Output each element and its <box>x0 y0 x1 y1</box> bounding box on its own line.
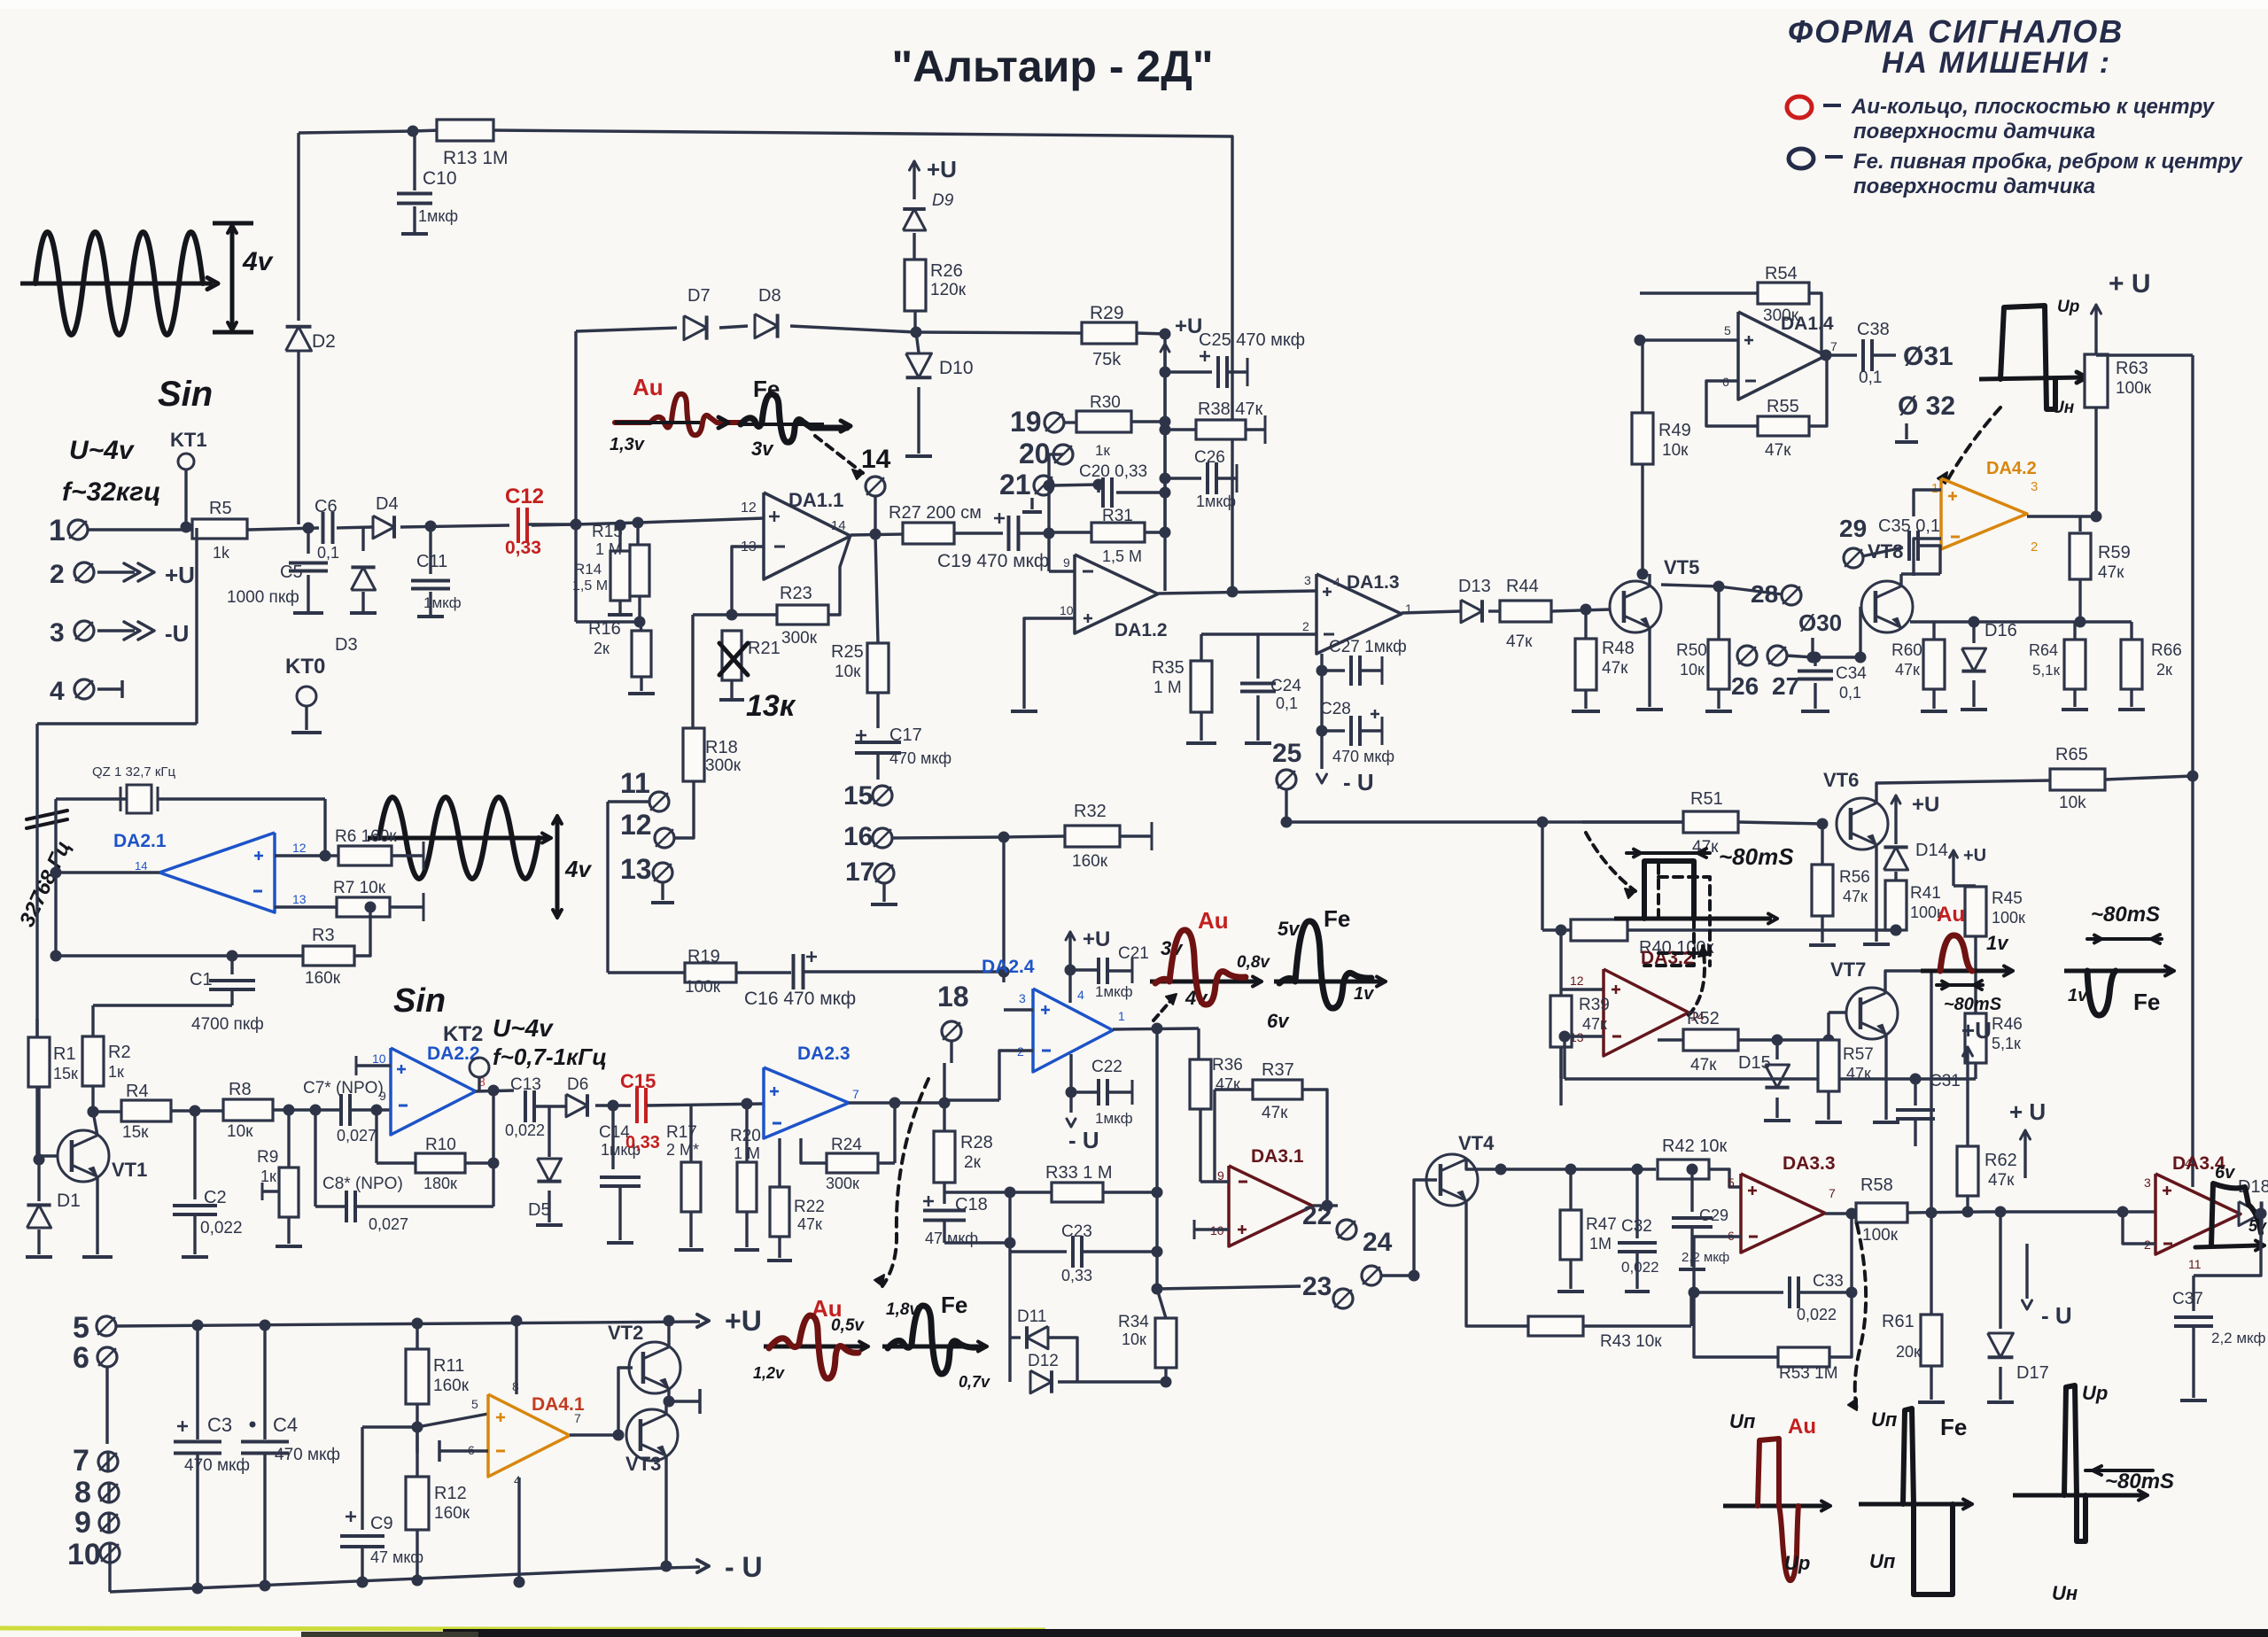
wire C23 right rail <box>1152 1187 1163 1199</box>
junction R9 <box>283 1105 295 1116</box>
svg-text:C27 1мкф: C27 1мкф <box>1329 638 1407 656</box>
dashed curve R51 <box>1586 833 1635 891</box>
junction col 1315 <box>1160 329 1171 340</box>
svg-text:C19 470 мкф: C19 470 мкф <box>937 551 1049 571</box>
svg-text:2к: 2к <box>2156 661 2172 679</box>
svg-text:R44: R44 <box>1506 577 1539 596</box>
svg-text:300к: 300к <box>705 756 742 775</box>
output waveform <box>2195 1245 2257 1247</box>
wire DA4.1 pin8 <box>515 1321 517 1394</box>
svg-text:3: 3 <box>2031 479 2038 494</box>
svg-text:C32: C32 <box>1621 1217 1652 1236</box>
svg-text:2: 2 <box>1302 619 1309 633</box>
sine wave 2 <box>379 797 539 879</box>
svg-text:C35 0,1: C35 0,1 <box>1878 516 1940 536</box>
svg-text:19: 19 <box>1010 406 1042 438</box>
diode D10 <box>916 332 919 353</box>
wire 25 rail <box>1286 820 1683 823</box>
svg-text:DA1.1: DA1.1 <box>788 489 843 511</box>
wire DA1.1 out <box>850 534 904 535</box>
resistor R37 <box>1213 1090 1216 1182</box>
svg-text:3v: 3v <box>751 438 774 460</box>
pulse third <box>2013 1493 2144 1498</box>
svg-text:D7: D7 <box>687 286 711 306</box>
svg-text:5,1к: 5,1к <box>1992 1035 2021 1052</box>
svg-text:1k: 1k <box>213 544 230 562</box>
op-amp DA3.3 <box>1741 1174 1825 1253</box>
capacitor C16 <box>792 954 796 989</box>
wire DA4.1 out <box>570 1433 618 1436</box>
svg-text:1 М: 1 М <box>595 540 622 558</box>
resistor R39 <box>1559 989 1562 996</box>
resistor R27 <box>903 523 954 544</box>
svg-text:160к: 160к <box>1072 852 1108 871</box>
svg-text:Sin: Sin <box>393 982 446 1020</box>
svg-text:R47: R47 <box>1586 1215 1617 1234</box>
svg-text:4: 4 <box>2185 1156 2192 1170</box>
svg-text:C26: C26 <box>1194 448 1225 467</box>
svg-text:10к: 10к <box>835 663 861 681</box>
junction D15 <box>1772 1035 1783 1046</box>
junction C19 out <box>1044 528 1055 539</box>
svg-text:47к: 47к <box>1846 1065 1871 1082</box>
svg-text:VT3: VT3 <box>625 1453 661 1475</box>
svg-text:24: 24 <box>1363 1228 1393 1257</box>
capacitor C11 <box>429 526 431 574</box>
resistor R6 <box>338 846 392 865</box>
wire DA1.4 pin6 <box>1706 381 1759 426</box>
svg-text:- U: - U <box>725 1551 763 1583</box>
svg-text:0,022: 0,022 <box>200 1219 243 1237</box>
svg-text:Uп: Uп <box>1871 1408 1898 1431</box>
resistor R59 <box>2078 516 2081 531</box>
svg-text:ФОРМА СИГНАЛОВ: ФОРМА СИГНАЛОВ <box>1788 13 2124 50</box>
svg-text:0,33: 0,33 <box>625 1133 660 1152</box>
wire R40 drop <box>1537 817 1549 828</box>
svg-text:R30: R30 <box>1090 393 1121 412</box>
wire 23 row <box>1157 1286 1301 1289</box>
svg-text:Au: Au <box>633 374 664 400</box>
wire VT6 emit <box>1875 844 1877 942</box>
svg-text:0,1: 0,1 <box>1859 369 1882 387</box>
svg-text:18: 18 <box>937 981 969 1012</box>
svg-text:180к: 180к <box>423 1175 457 1192</box>
svg-text:R42 10к: R42 10к <box>1662 1137 1727 1156</box>
resistor R56 <box>1821 824 1823 865</box>
svg-text:21: 21 <box>999 469 1031 500</box>
svg-text:D14: D14 <box>1915 841 1948 860</box>
svg-text:C25 470 мкф: C25 470 мкф <box>1199 330 1305 350</box>
svg-text:1мкф: 1мкф <box>423 594 462 611</box>
svg-text:D8: D8 <box>758 286 781 306</box>
wire R46 to pin13 <box>1563 1036 1565 1079</box>
svg-text:DA2.3: DA2.3 <box>797 1043 850 1064</box>
svg-text:10к: 10к <box>1680 661 1705 679</box>
svg-text:R58: R58 <box>1860 1175 1893 1195</box>
resistor R10 <box>375 1110 377 1163</box>
diode D13 <box>1461 600 1482 623</box>
svg-text:DA2.1: DA2.1 <box>113 831 167 851</box>
resistor R22 <box>778 1138 781 1187</box>
junction 16 <box>998 832 1010 843</box>
svg-text:R52: R52 <box>1687 1009 1720 1028</box>
op-amp DA1.1 <box>764 493 850 579</box>
svg-text:D2: D2 <box>312 331 336 352</box>
svg-text:R34: R34 <box>1118 1313 1149 1331</box>
resistor R61 <box>1930 1213 1932 1315</box>
capacitor C2 <box>193 1111 196 1199</box>
svg-text:10к: 10к <box>227 1122 253 1141</box>
svg-text:Au: Au <box>1198 907 1229 934</box>
svg-text:25: 25 <box>1272 739 1301 768</box>
svg-text:47к: 47к <box>1216 1075 1240 1093</box>
wire VT5 emitter <box>1648 627 1651 707</box>
svg-text:- U: - U <box>2041 1302 2072 1329</box>
svg-text:D16: D16 <box>1984 621 2017 640</box>
capacitor C19 <box>1007 516 1011 551</box>
squiggle 32768 <box>27 811 67 828</box>
resistor R45 <box>1953 884 1976 887</box>
svg-text:9: 9 <box>1063 555 1070 570</box>
svg-text:C23: C23 <box>1061 1222 1092 1241</box>
resistor R55 <box>1758 416 1809 436</box>
diode D18 <box>2239 1201 2262 1225</box>
svg-text:R19: R19 <box>687 947 720 966</box>
resistor R24 <box>893 1103 896 1163</box>
svg-text:KT2: KT2 <box>443 1022 483 1046</box>
capacitor C29 <box>1690 1169 1693 1212</box>
wire VT5 collector <box>1648 574 1651 586</box>
svg-text:НА МИШЕНИ :: НА МИШЕНИ : <box>1882 46 2111 80</box>
junction C11 <box>425 521 437 532</box>
svg-text:U~4v: U~4v <box>493 1014 554 1042</box>
svg-text:R20: R20 <box>730 1127 761 1145</box>
resistor R52 box <box>1683 1029 1738 1051</box>
resistor R30 <box>1063 421 1076 423</box>
svg-text:R5: R5 <box>209 499 232 518</box>
op-amp DA3.4 <box>2155 1174 2241 1254</box>
svg-text:R45: R45 <box>1992 889 2023 908</box>
power +U DA2.4 <box>1066 932 1075 940</box>
wire DA4.2 in1 <box>1914 490 1941 516</box>
svg-text:10к: 10к <box>1662 441 1689 460</box>
resistor R38 <box>1160 424 1171 436</box>
svg-text:R9: R9 <box>257 1148 278 1167</box>
svg-text:D6: D6 <box>567 1075 588 1094</box>
wire VT7 emit <box>1884 1034 1887 1120</box>
svg-text:C9: C9 <box>370 1514 393 1533</box>
svg-text:+U: +U <box>1083 927 1110 951</box>
resistor R58 <box>1856 1203 1907 1222</box>
svg-text:0,7v: 0,7v <box>959 1373 990 1391</box>
svg-text:1v: 1v <box>1986 932 2009 954</box>
wire DA2.4 pin2 <box>999 1051 1033 1100</box>
svg-text:~80mS: ~80mS <box>1719 843 1794 870</box>
wire DA2.2 fb col <box>492 1090 494 1206</box>
4v arrow 2 <box>555 819 560 914</box>
diode D3 <box>361 527 364 551</box>
terminal 27 <box>1767 646 1787 665</box>
transistor VT3 <box>626 1409 678 1461</box>
svg-text:D15: D15 <box>1738 1053 1771 1073</box>
capacitor C26 <box>1160 473 1171 485</box>
wire DA3.3 pin6 <box>1694 1237 1741 1292</box>
svg-text:R17: R17 <box>666 1123 697 1142</box>
resistor R25 <box>875 534 878 643</box>
sine wave input sketch <box>35 232 203 335</box>
svg-text:DA3.3: DA3.3 <box>1783 1153 1836 1174</box>
junction rail mid <box>357 1577 369 1588</box>
svg-text:2,2 мкф: 2,2 мкф <box>1682 1250 1729 1265</box>
svg-text:3: 3 <box>2144 1175 2151 1190</box>
svg-text:Fe: Fe <box>1940 1414 1967 1440</box>
transistor VT7 <box>1846 988 1898 1039</box>
svg-text:U~4v: U~4v <box>69 436 136 465</box>
svg-text:3: 3 <box>1019 991 1026 1005</box>
op-amp DA2.2 <box>391 1048 476 1135</box>
wire DA3.1 out <box>1313 1204 1327 1206</box>
wire R62 down <box>1984 1210 2155 1213</box>
svg-text:R28: R28 <box>960 1133 993 1152</box>
svg-text:5,1к: 5,1к <box>2032 662 2061 679</box>
capacitor C28 <box>1317 725 1328 737</box>
svg-text:470 мкф: 470 мкф <box>275 1446 340 1464</box>
diode D16 <box>2078 609 2081 622</box>
resistor R16 <box>640 622 641 631</box>
svg-text:0,33: 0,33 <box>1061 1267 1092 1284</box>
svg-text:C13: C13 <box>510 1075 541 1094</box>
svg-text:0,1: 0,1 <box>1276 694 1298 712</box>
svg-text:4: 4 <box>1333 575 1340 589</box>
capacitor C32 <box>1635 1169 1638 1238</box>
resistor R32 <box>1004 836 1064 837</box>
wire R2 top <box>93 1004 232 1006</box>
svg-text:1М: 1М <box>1589 1235 1612 1253</box>
svg-text:4: 4 <box>1077 988 1084 1002</box>
capacitor C14 <box>611 1106 614 1169</box>
svg-text:20к: 20к <box>1896 1343 1921 1361</box>
svg-text:0,022: 0,022 <box>1621 1259 1659 1276</box>
op-amp DA1.2 <box>1075 555 1158 633</box>
wire VT3 emit <box>664 1455 667 1566</box>
resistor R51 <box>1285 820 1287 823</box>
svg-text:R48: R48 <box>1602 639 1635 658</box>
resistor R48 <box>1584 609 1587 638</box>
junction top <box>408 126 419 137</box>
svg-text:0,1: 0,1 <box>1839 684 1861 702</box>
svg-text:QZ 1 32,7 кГц: QZ 1 32,7 кГц <box>92 764 176 780</box>
svg-text:C10: C10 <box>423 168 457 189</box>
svg-text:DA1.3: DA1.3 <box>1347 572 1400 593</box>
wire DA2.1 pin12 <box>275 854 325 857</box>
svg-text:C33: C33 <box>1813 1272 1844 1291</box>
diode D1 <box>37 1160 40 1201</box>
junction C5 <box>303 523 315 534</box>
dashed arrow DA3.3 down <box>1855 1224 1866 1410</box>
resistor R20 <box>745 1104 748 1162</box>
diode D4 <box>373 516 394 539</box>
svg-text:Uр: Uр <box>1784 1552 1810 1574</box>
op-amp DA2.4 <box>1033 989 1113 1072</box>
svg-text:Au: Au <box>1788 1415 1816 1439</box>
svg-text:C8* (NPO): C8* (NPO) <box>322 1175 403 1193</box>
svg-text:VT7: VT7 <box>1830 958 1866 981</box>
svg-text:R23: R23 <box>780 584 812 603</box>
svg-text:D1: D1 <box>57 1191 81 1211</box>
wire DA4.1 pin6 <box>439 1449 488 1452</box>
svg-text:0,027: 0,027 <box>337 1127 377 1144</box>
svg-text:R57: R57 <box>1843 1045 1874 1064</box>
svg-text:5: 5 <box>73 1311 89 1345</box>
junction R11 R12 <box>412 1422 423 1433</box>
capacitor C17 <box>855 741 901 744</box>
svg-text:17: 17 <box>845 857 874 887</box>
svg-text:Au-кольцо, плоскостью к центру: Au-кольцо, плоскостью к центру <box>1851 95 2216 119</box>
capacitor C34 <box>1814 657 1816 666</box>
svg-text:D5: D5 <box>528 1200 551 1220</box>
svg-text:7: 7 <box>1829 1186 1836 1200</box>
resistor R50 <box>1717 586 1720 640</box>
wire R18 col <box>691 615 694 728</box>
wire DA1.2 pins <box>1049 570 1075 572</box>
diode D11 <box>1010 1336 1021 1338</box>
svg-text:R6 160к: R6 160к <box>335 827 397 846</box>
svg-text:R33 1 М: R33 1 М <box>1045 1163 1113 1183</box>
svg-text:Fe: Fe <box>2133 989 2160 1015</box>
wire input row <box>87 528 191 531</box>
junction R26 bottom <box>911 327 922 338</box>
svg-text:Uп: Uп <box>1729 1410 1756 1432</box>
resistor R63 <box>2085 354 2108 407</box>
svg-text:1: 1 <box>49 514 66 547</box>
capacitor C4 <box>260 1320 271 1331</box>
op-amp DA1.4 <box>1738 312 1826 400</box>
svg-text:~80mS: ~80mS <box>1944 995 2002 1014</box>
svg-text:14: 14 <box>861 445 891 474</box>
wire 24 to VT4 <box>1414 1180 1437 1276</box>
svg-text:1к: 1к <box>1095 442 1110 459</box>
svg-text:- U: - U <box>1343 769 1374 795</box>
capacitor C31 <box>1914 1079 1916 1106</box>
svg-text:Uр: Uр <box>2082 1382 2108 1404</box>
svg-text:- U: - U <box>1068 1127 1099 1153</box>
svg-text:2: 2 <box>50 560 65 589</box>
junction VT6 base <box>1817 818 1829 830</box>
svg-text:47к: 47к <box>797 1215 822 1233</box>
svg-text:R56: R56 <box>1839 868 1870 887</box>
svg-text:75k: 75k <box>1092 350 1122 369</box>
junction VT1 coll <box>88 1106 99 1118</box>
svg-text:1,5 М: 1,5 М <box>1102 547 1142 565</box>
svg-text:C17: C17 <box>889 725 922 745</box>
wire DA1.2 out <box>1158 591 1317 594</box>
svg-text:15к: 15к <box>53 1065 78 1082</box>
diode D17 sym <box>1988 1333 2014 1357</box>
resistor R33 <box>1052 1183 1103 1202</box>
capacitor C21 <box>1070 968 1097 971</box>
power -U DA3.4 <box>2025 1244 2028 1299</box>
diode D12 <box>1008 1338 1011 1382</box>
svg-text:R26: R26 <box>930 261 963 281</box>
svg-text:47к: 47к <box>1582 1015 1607 1033</box>
op-amp DA3.1 <box>1229 1166 1313 1246</box>
diode D9 <box>903 209 926 230</box>
capacitor C37 <box>2256 1208 2267 1220</box>
svg-text:C18: C18 <box>955 1195 988 1214</box>
svg-text:C22: C22 <box>1091 1058 1122 1076</box>
wire DA3.1 pin9 <box>1200 1180 1229 1183</box>
svg-text:"Альтаир - 2Д": "Альтаир - 2Д" <box>891 42 1213 91</box>
svg-text:C2: C2 <box>204 1188 227 1207</box>
resistor R5 <box>192 519 247 539</box>
junction R14 <box>615 520 626 531</box>
svg-text:5v: 5v <box>1278 918 1301 940</box>
svg-text:6v: 6v <box>2215 1163 2236 1183</box>
svg-text:23: 23 <box>1302 1272 1332 1301</box>
svg-text:C38: C38 <box>1857 320 1890 339</box>
svg-text:+U: +U <box>1961 1017 1992 1043</box>
svg-text:R29: R29 <box>1090 303 1124 323</box>
wire VT4 coll <box>1466 1160 1656 1169</box>
capacitor C13 <box>524 1090 527 1122</box>
svg-text:0,1: 0,1 <box>317 544 339 562</box>
svg-text:1,3v: 1,3v <box>610 435 646 454</box>
svg-text:0,8v: 0,8v <box>1237 953 1270 972</box>
wire VT6 coll <box>1876 780 2052 803</box>
svg-text:R13 1M: R13 1M <box>443 148 509 168</box>
svg-text:1v: 1v <box>2068 986 2089 1005</box>
resistor R17 <box>689 1105 692 1162</box>
svg-text:Ø30: Ø30 <box>1798 609 1842 636</box>
svg-text:47 мкф: 47 мкф <box>370 1548 423 1566</box>
resistor R35 <box>1201 632 1258 635</box>
svg-text:2: 2 <box>2031 539 2038 555</box>
wire 18 column <box>943 1063 945 1130</box>
svg-text:Sin: Sin <box>158 375 213 414</box>
resistor R8 <box>223 1099 273 1121</box>
svg-text:10: 10 <box>67 1538 101 1571</box>
svg-text:R54: R54 <box>1765 264 1798 283</box>
svg-text:R7 10к: R7 10к <box>333 879 386 897</box>
svg-text:DA3.1: DA3.1 <box>1251 1146 1304 1167</box>
svg-text:KT1: KT1 <box>170 429 207 451</box>
wire DA4.1 pin4 <box>517 1478 520 1582</box>
wire DA2.1 pin13 <box>275 905 336 908</box>
svg-text:1,5 М: 1,5 М <box>572 578 608 594</box>
svg-text:5: 5 <box>471 1397 478 1411</box>
red ring legend <box>1787 97 1812 118</box>
svg-text:R10: R10 <box>425 1136 456 1154</box>
wire R18 to 12 <box>673 820 694 838</box>
wire DA2.1 out <box>56 871 159 873</box>
wire DA3.3 out <box>1825 1212 1852 1214</box>
capacitor C5 <box>307 528 309 554</box>
svg-text:14: 14 <box>135 859 147 873</box>
capacitor C8 <box>314 1110 316 1206</box>
resistor R44 <box>1488 609 1499 612</box>
svg-text:7: 7 <box>73 1444 89 1478</box>
svg-text:0,022: 0,022 <box>505 1121 545 1139</box>
svg-text:VT8: VT8 <box>1868 540 1903 562</box>
svg-text:DA1.2: DA1.2 <box>1115 620 1168 640</box>
wire DA3.1 pin10 <box>1194 1228 1229 1230</box>
svg-text:20: 20 <box>1019 438 1051 469</box>
transistor VT1 <box>58 1130 109 1182</box>
wire VT2 emit <box>667 1388 670 1401</box>
svg-text:~80mS: ~80mS <box>2105 1470 2174 1493</box>
resistor R53 box <box>1778 1347 1829 1367</box>
wire right col down <box>2191 355 2194 774</box>
